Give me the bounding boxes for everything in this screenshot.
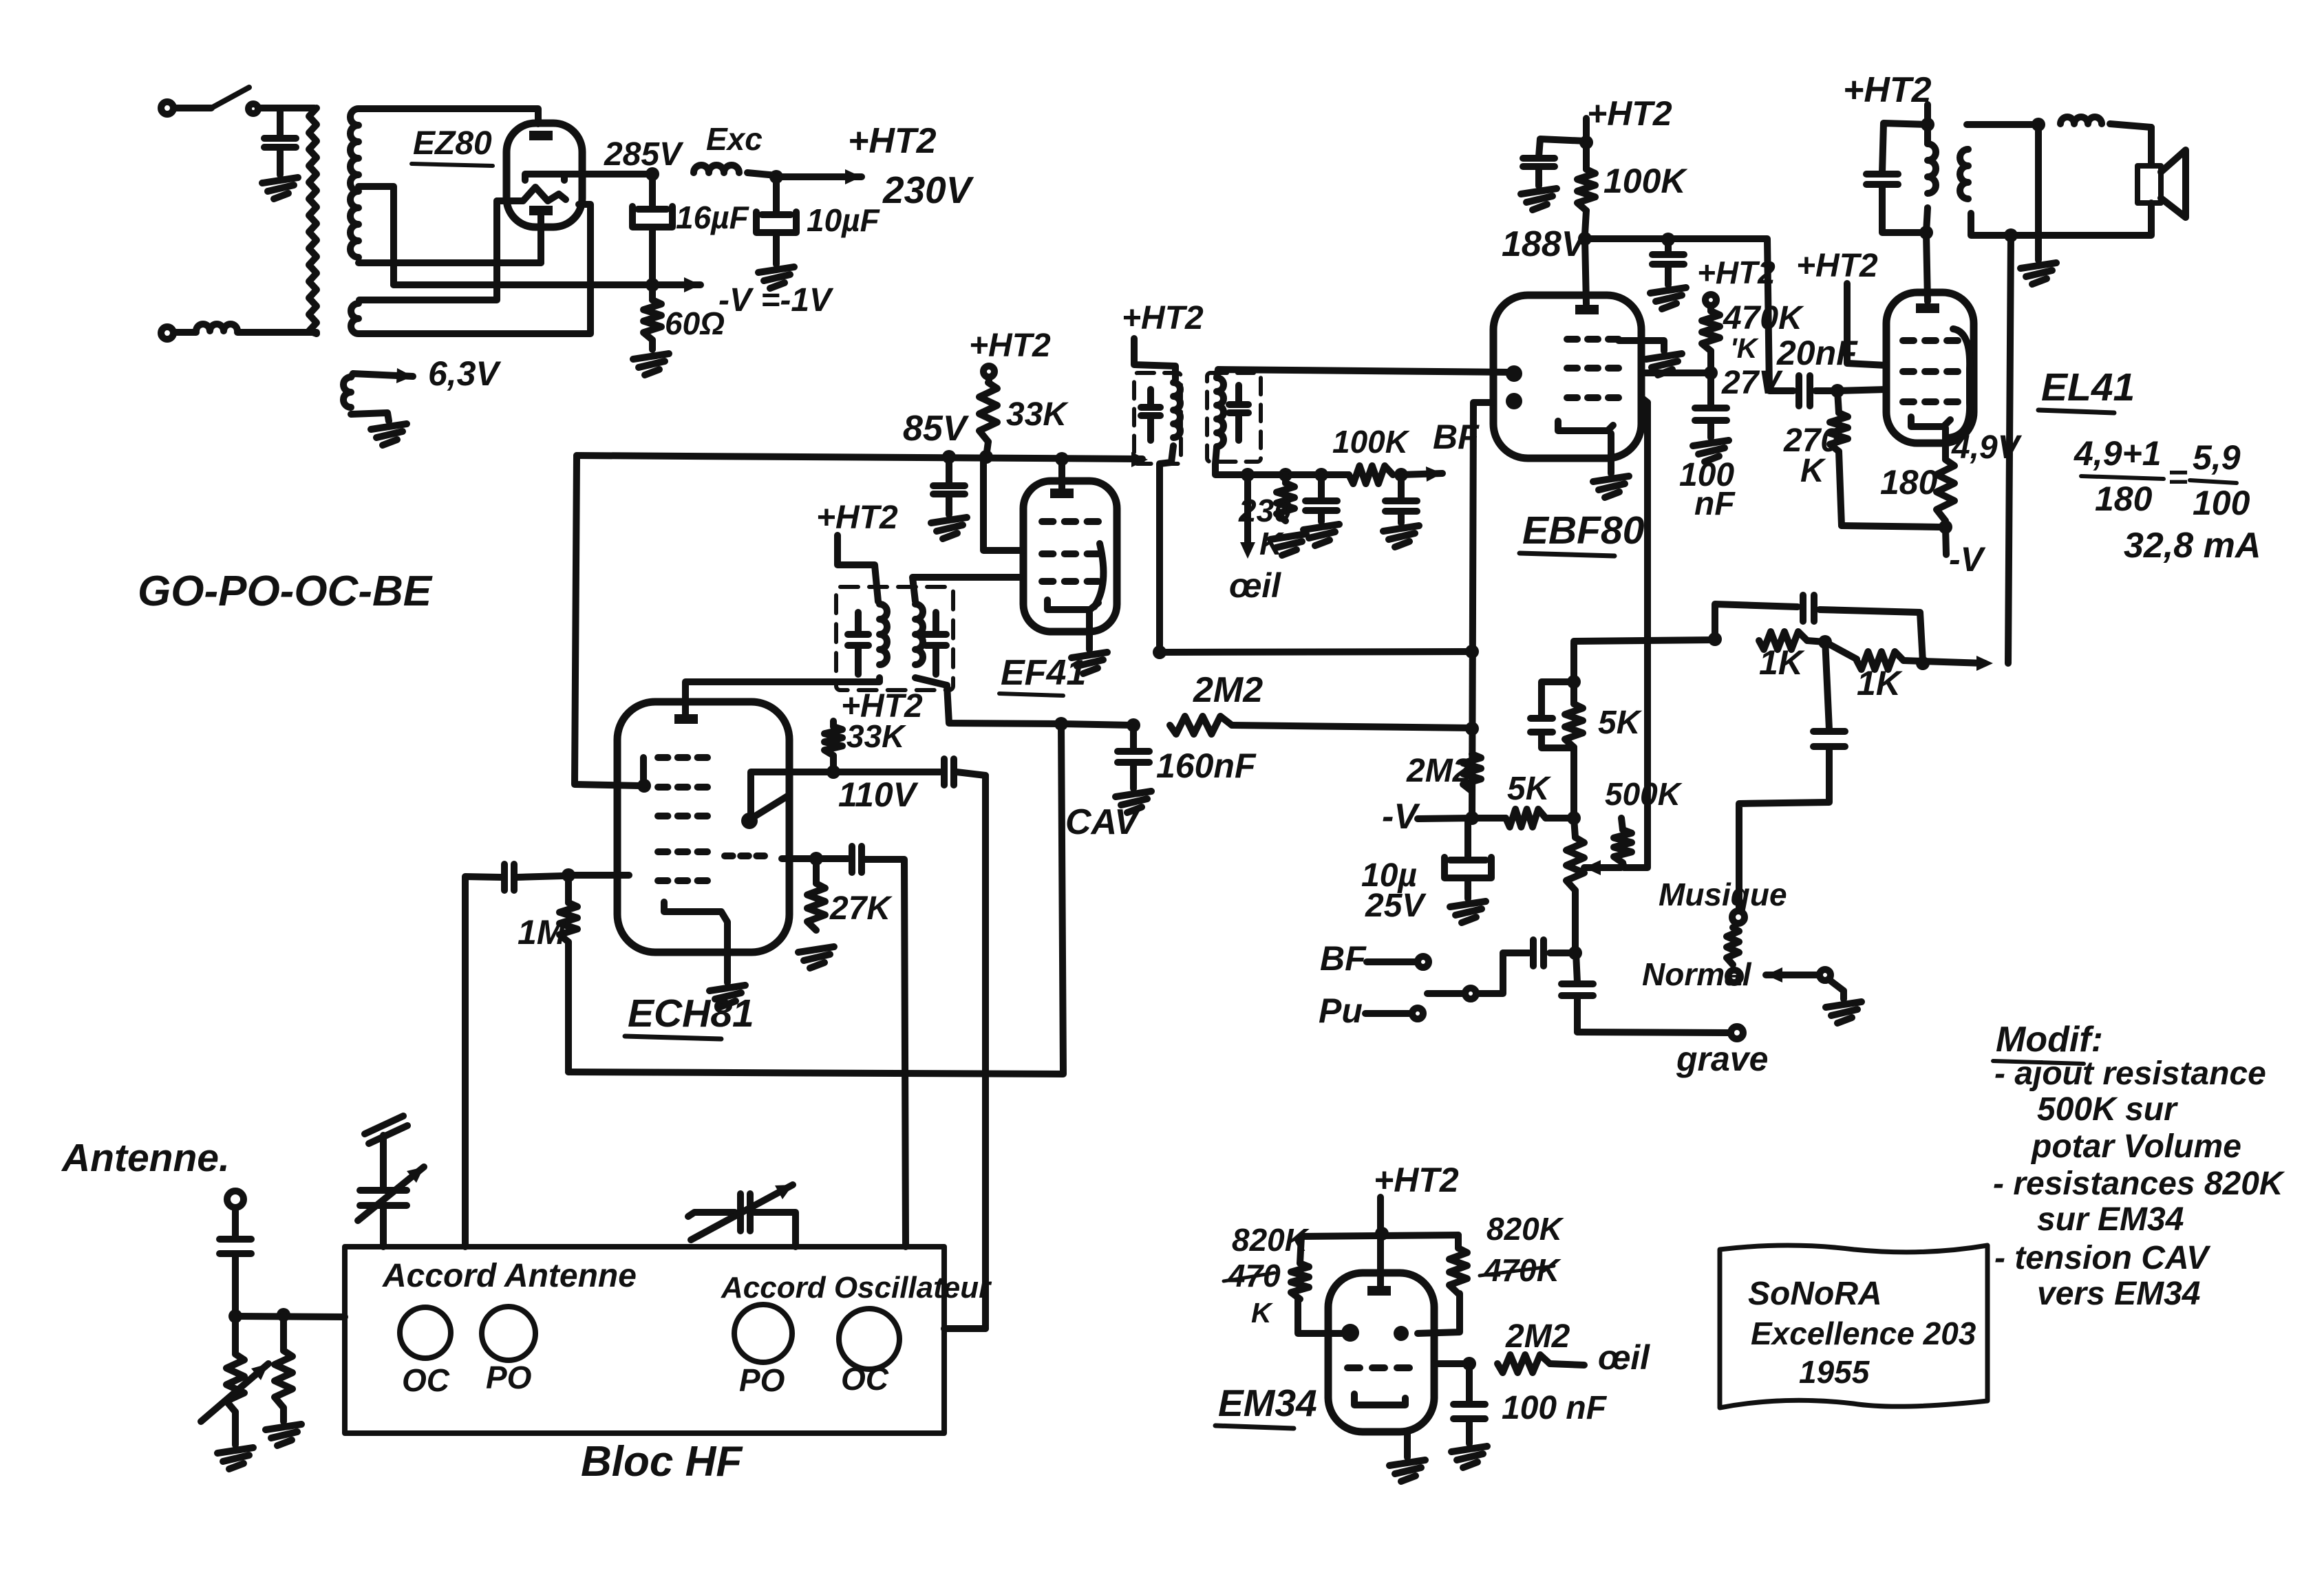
svg-text:820K: 820K <box>1486 1211 1564 1247</box>
svg-text:EL41: EL41 <box>2041 365 2135 409</box>
wire (osc tuning line) <box>982 775 989 1329</box>
node dot (bypass) <box>1661 233 1675 246</box>
node dot -V <box>1465 811 1479 825</box>
ground (10uF) <box>758 267 794 272</box>
capacitor (grave) <box>1576 953 1577 983</box>
svg-text:Accord Oscillateur: Accord Oscillateur <box>721 1271 992 1305</box>
wire (EF41 screen grid) <box>983 457 1023 550</box>
node dot (antenna 1) <box>228 1309 242 1323</box>
node dot (230K branch) <box>1279 468 1292 482</box>
node dot (ECH81 g1) <box>562 868 575 882</box>
output tube EL41 <box>1886 292 1974 443</box>
ground (160nF) <box>1116 791 1151 797</box>
wire (osc line to Bloc HF) <box>944 1325 985 1332</box>
EM34 top pin <box>1367 1286 1391 1296</box>
terminal BF <box>1418 956 1429 967</box>
IFT2 primary cap <box>1147 389 1154 406</box>
ground (85V bypass cap) <box>931 517 967 523</box>
node dot 285V <box>646 167 659 181</box>
wire (188V to 20nF) <box>1585 239 1769 389</box>
svg-text:100 nF: 100 nF <box>1502 1390 1608 1426</box>
wire EM34 grid out <box>1434 1360 1466 1367</box>
node dot 110V <box>827 765 840 779</box>
terminal PU <box>1412 1008 1423 1019</box>
svg-text:EZ80: EZ80 <box>413 125 492 162</box>
svg-text:+HT2: +HT2 <box>816 500 898 536</box>
switch pivot <box>1820 969 1831 980</box>
svg-text:110V: 110V <box>838 775 919 814</box>
wire OT to EL41 plate <box>1926 233 1928 301</box>
speaker coupling coil <box>2060 117 2102 124</box>
node dot (fb tap) <box>2004 228 2018 242</box>
ground (27K) <box>798 947 834 952</box>
ground (BF out cap) <box>1383 526 1419 531</box>
wire antenna to box <box>235 1316 345 1317</box>
node dot 188V <box>1578 232 1592 246</box>
ground (HT2 bypass) <box>1521 189 1557 194</box>
wire (820K top bar) <box>1301 1235 1458 1236</box>
EF41 grid dashes row1 <box>1042 518 1053 525</box>
svg-text:+HT2: +HT2 <box>1122 300 1204 336</box>
svg-text:OC: OC <box>402 1362 450 1398</box>
node dot (fb mid) <box>1818 635 1832 649</box>
ECH81 cathode <box>664 902 727 983</box>
svg-text:1K: 1K <box>1759 643 1806 682</box>
ground (g3) <box>1646 354 1682 359</box>
svg-text:- resistances 820K: - resistances 820K <box>1993 1166 2285 1202</box>
node dot (pot top) <box>1567 811 1581 825</box>
resistor 2M2 (eye) <box>1497 1355 1550 1373</box>
node dot (cathode R) <box>1939 520 1952 534</box>
oscillator trimmer <box>688 1212 735 1216</box>
IFT1 primary winding <box>880 604 887 665</box>
svg-text:5K: 5K <box>1598 705 1643 741</box>
ground (188V bypass) <box>1650 288 1686 293</box>
svg-text:230V: 230V <box>882 169 974 211</box>
svg-text:-V: -V <box>1949 540 1986 579</box>
node dot (spk top) <box>2032 118 2045 131</box>
node dot (CAV junction) <box>1465 722 1479 736</box>
wire +HT2 EM34 <box>1377 1197 1384 1291</box>
svg-text:2M2: 2M2 <box>1193 670 1263 710</box>
node dot (cap branch) <box>1314 468 1328 482</box>
Sonora box <box>1720 1245 1987 1408</box>
wire (feedback vertical) <box>2008 235 2011 663</box>
capacitor (HT2 bypass) <box>1539 139 1586 157</box>
terminal (switch mid) <box>1465 988 1476 999</box>
ground (EF41 cathode) <box>1072 652 1107 658</box>
ground (detector cap) <box>1303 524 1339 530</box>
svg-text:6,3V: 6,3V <box>428 354 502 393</box>
resistor 270K <box>1837 391 1839 413</box>
wire (spk center tap gnd) <box>2035 125 2042 260</box>
pentode tube EF41 <box>1023 481 1117 632</box>
svg-text:EM34: EM34 <box>1218 1382 1317 1424</box>
wire (HV secondary bottom) <box>359 259 541 266</box>
resistor 1K first <box>1759 632 1807 650</box>
arrow +HT2 output <box>776 173 862 180</box>
wire +HT2 EL41 <box>1924 105 1931 144</box>
wire (cap to Bloc HF) <box>465 877 502 1247</box>
switch arm arrow <box>1766 967 1782 983</box>
wire (EL41 screen) <box>1847 283 1886 365</box>
wire -V stub (EL41) <box>1945 527 1946 555</box>
node dot (EF41 plate feed) <box>1055 452 1069 466</box>
wire -V rail with arrow <box>394 281 701 288</box>
wire 27V node <box>1641 369 1711 376</box>
svg-text:+HT2: +HT2 <box>969 328 1051 364</box>
EF41 top pin <box>1050 489 1074 498</box>
ground (speaker) <box>2021 263 2056 268</box>
knob OC 1 <box>400 1307 451 1358</box>
capacitor 10u 25V <box>1464 818 1471 857</box>
svg-text:100K: 100K <box>1603 162 1688 200</box>
svg-text:Excellence 203: Excellence 203 <box>1751 1316 1976 1351</box>
resistor 5K (bus) <box>1472 815 1506 822</box>
on/off switch S1 <box>211 87 249 108</box>
volume potentiometer <box>1574 818 1575 837</box>
capacitor 100nF (EBF80) <box>1707 373 1714 407</box>
transformer T1 6.3V winding <box>343 377 351 407</box>
capacitor (tone) <box>1825 639 1829 729</box>
variable inductor (antenna) <box>232 1316 239 1354</box>
resistor 1M <box>565 875 572 903</box>
node dot (5K2 top) <box>1567 675 1581 689</box>
wire (110V to triode grid) <box>751 772 833 816</box>
resistor 820K left <box>1300 1236 1301 1263</box>
node dot (IF bus right) <box>1465 645 1479 658</box>
EM34 right pin <box>1394 1326 1409 1341</box>
svg-text:+HT2: +HT2 <box>1374 1161 1459 1199</box>
wire (AVC/diode line) <box>1472 403 1493 816</box>
node dot (fb right) <box>1916 656 1930 670</box>
wire (+HT2 to IFT1) <box>838 535 878 601</box>
wire (EF41 control grid) <box>913 577 1019 601</box>
rectifier tube EZ80 <box>507 123 582 227</box>
svg-text:+HT2: +HT2 <box>1796 248 1878 284</box>
EL41 grid dashes row2 <box>1903 368 1914 375</box>
mains plug terminal (bottom) <box>161 327 173 339</box>
wire (bus to EF41 plate) <box>1058 459 1065 490</box>
ground (EM34) <box>1389 1460 1425 1466</box>
resistor 2M2 (AVC) <box>1170 716 1232 734</box>
EBF80 grid dashes row2 <box>1567 365 1577 372</box>
wire (IFT2 bottom to AVC line) <box>1160 446 1173 652</box>
EF41 grid dashes row2 <box>1042 550 1053 557</box>
ground (ant coil) <box>217 1448 253 1453</box>
potentiometer 100K (BF) <box>1349 466 1393 484</box>
capacitor (85V bypass) <box>946 457 952 483</box>
wire switch to gnd <box>1829 980 1844 999</box>
ground (230K) <box>1270 534 1306 539</box>
wire (ECH81 plate to IFT1) <box>685 678 880 717</box>
svg-text:33K: 33K <box>846 718 906 754</box>
wire (6.3V winding bottom) <box>351 413 389 421</box>
terminal Musique <box>1732 911 1745 923</box>
svg-text:85V: 85V <box>903 409 970 449</box>
IFT1 secondary winding <box>915 604 923 665</box>
EBF80 cathode <box>1558 421 1613 431</box>
wire (EBF80 g3 to gnd) <box>1619 341 1664 351</box>
resistor 2M2 vertical <box>1463 754 1481 791</box>
wire (EZ80 heater right) <box>359 204 590 334</box>
resistor 33K (osc anode) <box>830 721 837 727</box>
svg-text:œil: œil <box>1598 1338 1650 1377</box>
EM34 dashes <box>1347 1364 1360 1371</box>
svg-text:60Ω: 60Ω <box>665 305 725 341</box>
EM34 left pin <box>1341 1324 1359 1342</box>
ground (60ohm) <box>633 354 669 359</box>
svg-text:K: K <box>1251 1297 1274 1329</box>
ground (100nF) <box>1693 440 1729 446</box>
IFT2 primary winding <box>1173 383 1180 438</box>
wire (speaker return) <box>1971 203 2151 235</box>
filter choke (Exc field coil) <box>694 165 739 173</box>
svg-text:500K sur: 500K sur <box>2037 1091 2178 1128</box>
ground (ant res) <box>266 1424 301 1430</box>
capacitor across mains <box>277 108 284 136</box>
wire (osc feedback to Bloc HF) <box>904 859 906 1247</box>
svg-text:sur EM34: sur EM34 <box>2037 1201 2184 1238</box>
EL41 grid dashes row3 <box>1903 398 1914 405</box>
wire (EZ80 heater left) <box>359 201 497 300</box>
ground (switch) <box>1826 1002 1862 1007</box>
node dot HT2 <box>769 170 783 184</box>
wire fb mid <box>1807 641 1825 642</box>
svg-text:820K: 820K <box>1232 1222 1310 1258</box>
ECH81 triode grid line <box>751 795 789 819</box>
svg-text:=: = <box>2168 458 2188 496</box>
node dot (antenna 2) <box>277 1308 290 1322</box>
terminal grave <box>1731 1027 1743 1039</box>
wire -V stub <box>1418 818 1472 819</box>
svg-text:Pu: Pu <box>1319 991 1363 1030</box>
node dot (85V cap) <box>942 450 956 464</box>
wire (IFT3 bottom out) <box>1215 447 1349 475</box>
node dot (CAV node) <box>1054 717 1068 731</box>
node dot (OT top) <box>1921 118 1934 131</box>
capacitor across 5K <box>1542 682 1574 717</box>
svg-text:+HT2: +HT2 <box>848 121 937 161</box>
EZ80 bottom pin <box>529 206 553 215</box>
svg-text:1M: 1M <box>518 913 566 952</box>
ECH81 inner link <box>640 758 647 787</box>
resistor 33K (EF41 screen feed) <box>985 377 992 383</box>
mains plug terminal (top) <box>161 102 173 114</box>
ECH81 grid dashes row3 <box>658 813 668 819</box>
svg-text:grave: grave <box>1676 1040 1768 1078</box>
resistor 500K <box>1621 818 1623 830</box>
svg-text:GO-PO-OC-BE: GO-PO-OC-BE <box>138 568 433 615</box>
ground (10u) <box>1450 901 1486 907</box>
resistor 1K second <box>1857 652 1904 669</box>
wire (+HT2 to IFT2) <box>1134 339 1175 380</box>
EL41 grid dashes row1 <box>1903 337 1914 344</box>
svg-text:470K: 470K <box>1723 300 1804 336</box>
arrow 6.3V <box>351 374 353 377</box>
resistor 27K <box>813 859 820 883</box>
wire BF jack <box>1367 958 1416 965</box>
EBF80 grid dashes row1 <box>1567 336 1577 343</box>
svg-text:4,9+1: 4,9+1 <box>2074 434 2162 473</box>
capacitor (detector) <box>1318 475 1325 500</box>
svg-text:Normal: Normal <box>1642 956 1752 992</box>
svg-text:Accord Antenne: Accord Antenne <box>382 1258 637 1294</box>
arrow (wiper) <box>1584 864 1621 871</box>
svg-text:Bloc HF: Bloc HF <box>581 1438 743 1485</box>
IF transformer IFT2 box <box>1134 373 1181 464</box>
svg-text:27K: 27K <box>829 890 893 927</box>
svg-text:+HT2: +HT2 <box>1587 94 1672 133</box>
wire 85V bus <box>577 455 1142 459</box>
antenna trimmer top <box>365 1116 403 1134</box>
wire (g1 into tube) <box>568 872 629 879</box>
node dot (IF bus left) <box>1153 645 1166 659</box>
node dot (EM34 HT2) <box>1375 1227 1389 1241</box>
EM34 cathode <box>1354 1394 1405 1405</box>
Bloc HF box <box>345 1247 944 1433</box>
EBF80 top pin <box>1575 305 1599 314</box>
wire (left loop to ECH81 grid) <box>575 455 640 786</box>
node dot (EM34 grid) <box>1462 1357 1476 1371</box>
ECH81 grid dashes row5 <box>658 877 668 884</box>
EBF80 diode pin upper <box>1506 365 1522 382</box>
svg-text:27V: 27V <box>1721 365 1783 401</box>
wire (270K to cathode) <box>1842 526 1939 527</box>
ECH81 grid dashes row2 <box>658 784 668 791</box>
EM34 bottom wire <box>1404 1432 1411 1457</box>
knob PO 2 <box>734 1305 792 1362</box>
EZ80 plate bar <box>525 174 564 180</box>
EBF80 cathode ground wire <box>1608 433 1614 473</box>
wire EL41 cathode <box>1942 428 1949 460</box>
EBF80 grid dashes row3 <box>1567 394 1577 401</box>
switch spring <box>1727 927 1739 965</box>
wire (5K2 vertical) <box>1570 643 1577 704</box>
EF41 cathode <box>1047 600 1098 610</box>
svg-text:vers EM34: vers EM34 <box>2037 1276 2201 1312</box>
capacitor 100nF (eye) <box>1466 1364 1473 1403</box>
svg-text:10µF: 10µF <box>807 202 881 238</box>
pentode-diode tube EBF80 <box>1493 295 1641 458</box>
IFT3 secondary cap <box>1235 385 1242 403</box>
node dot (27K) <box>809 852 823 866</box>
svg-text:ECH81: ECH81 <box>628 991 754 1036</box>
wire (secondary top to EZ80 plate) <box>359 109 538 124</box>
arrow into IF can <box>1131 452 1148 467</box>
wire (IFT1 secondary out) <box>915 678 1061 724</box>
arrow BF <box>1401 473 1442 475</box>
svg-text:5,9: 5,9 <box>2193 438 2241 477</box>
svg-text:OC: OC <box>841 1361 889 1397</box>
node dot (33K/bus) <box>979 450 993 464</box>
ECH81 top pin <box>674 714 698 724</box>
svg-text:100: 100 <box>2193 484 2250 522</box>
IFT1 primary cap <box>855 612 862 633</box>
capacitor (BF out) <box>1398 475 1405 500</box>
svg-text:Musique: Musique <box>1659 877 1787 912</box>
capacitor (AF coupling) <box>1550 949 1575 956</box>
svg-text:1K: 1K <box>1857 664 1904 702</box>
wire CAV vertical <box>568 724 1063 1074</box>
EZ80 top pin <box>529 131 553 140</box>
resistor 180 <box>1937 460 1954 521</box>
node dot (BF out) <box>1394 468 1408 482</box>
wire (to speaker) <box>2148 127 2155 165</box>
capacitor 16uF <box>649 174 656 206</box>
svg-text:1955: 1955 <box>1799 1354 1870 1390</box>
wire feedback bus <box>1574 640 1715 641</box>
terminal Normal <box>1728 970 1740 983</box>
ground (eye cap) <box>1451 1446 1487 1452</box>
svg-text:K: K <box>1800 453 1826 489</box>
wire (switch link) <box>1478 953 1503 994</box>
IFT1 secondary cap <box>932 612 939 633</box>
output transformer primary <box>1928 144 1936 193</box>
svg-text:œil: œil <box>1229 566 1281 605</box>
svg-text:-V: -V <box>1382 797 1420 837</box>
node dot (-V rail) <box>646 278 659 292</box>
resistor 230K <box>1282 475 1289 483</box>
svg-text:PO: PO <box>739 1362 785 1398</box>
resistor (antenna) <box>280 1315 287 1351</box>
capacitor 10uF <box>773 177 780 212</box>
node dot (fb left) <box>1708 632 1722 646</box>
ground (mains cap) <box>262 178 298 183</box>
IFT3 secondary winding <box>1217 378 1224 447</box>
wire PU jack <box>1365 1010 1411 1017</box>
capacitor (antenna to g1) <box>501 864 508 890</box>
svg-text:16µF: 16µF <box>676 200 750 235</box>
svg-text:500K: 500K <box>1605 776 1683 812</box>
svg-text:230: 230 <box>1238 493 1292 528</box>
transformer T1 rectifier heater winding <box>351 303 359 334</box>
node dot (ECH81 g2) <box>637 779 651 793</box>
capacitor 20nF <box>1795 376 1802 406</box>
resistor 470K <box>1707 305 1714 311</box>
wire (diode det line) <box>1624 398 1648 868</box>
ECH81 triode grid dot <box>741 813 758 829</box>
EBF80 diode pin lower <box>1506 393 1522 409</box>
node dot (100K top) <box>1579 136 1593 149</box>
node dot (OT bottom) <box>1919 226 1933 239</box>
wire (HV center tap) <box>359 186 394 285</box>
svg-text:BF: BF <box>1320 939 1367 978</box>
terminal antenna <box>227 1191 244 1208</box>
wire (+HT2 stub) <box>1583 118 1590 142</box>
svg-text:2M2: 2M2 <box>1406 753 1471 789</box>
svg-text:+HT2: +HT2 <box>1697 255 1776 290</box>
svg-text:25V: 25V <box>1365 888 1427 924</box>
node dot (pot bottom) <box>1568 946 1582 960</box>
EF41 grid dashes row3 <box>1042 578 1053 585</box>
transformer T1 primary winding <box>309 108 317 334</box>
svg-text:'K: 'K <box>1730 332 1760 364</box>
node dot 27V <box>1704 366 1718 380</box>
EF41 anode curve <box>1094 544 1103 607</box>
ground (EBF80 cathode) <box>1593 476 1629 482</box>
svg-text:EF41: EF41 <box>1001 653 1086 693</box>
capacitor (antenna) <box>232 1208 239 1238</box>
svg-text:100K: 100K <box>1332 424 1410 460</box>
svg-text:nF: nF <box>1694 486 1736 522</box>
loudspeaker <box>2138 166 2161 203</box>
knob PO 1 <box>482 1307 535 1360</box>
svg-text:285V: 285V <box>604 136 684 173</box>
capacitor 160nF <box>1130 725 1137 750</box>
node dot (EL41 grid) <box>1831 384 1844 398</box>
wire grave <box>1577 1032 1730 1033</box>
